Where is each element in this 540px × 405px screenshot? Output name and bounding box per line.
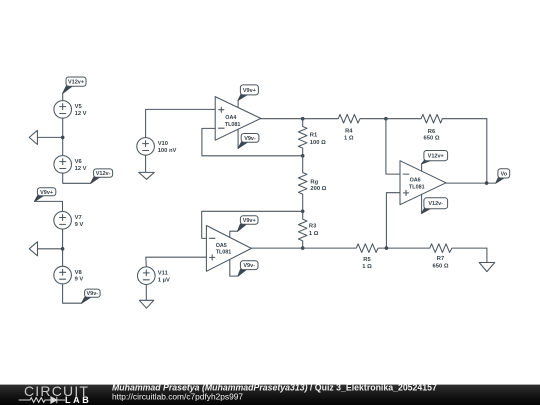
svg-text:12 V: 12 V (75, 111, 87, 117)
flag V9v+ (OA4) (238, 85, 258, 100)
resistor Rg (298, 156, 307, 212)
wire OA6 output to Vo (446, 182, 496, 184)
wire OA4 feedback (output node to inverting input) (202, 128, 303, 155)
wire OA6 non-inverting input (386, 193, 400, 248)
wire R7 to ground (486, 248, 488, 262)
resistor R5 (303, 244, 387, 253)
flag V12v+ (OA6) (422, 151, 448, 164)
footer bar (0, 385, 540, 405)
svg-text:100 Ω: 100 Ω (310, 140, 326, 146)
OA5 V+ pin (230, 231, 238, 237)
svg-text:OA5: OA5 (216, 243, 227, 249)
svg-text:V12v+: V12v+ (428, 154, 444, 160)
wire V10 to OA4 plus input (146, 109, 216, 137)
svg-text:R6: R6 (428, 129, 436, 135)
flag Vo (output) (496, 169, 510, 183)
svg-text:650 Ω: 650 Ω (424, 135, 440, 141)
svg-text:TL081: TL081 (216, 250, 232, 256)
ground below V11 (139, 300, 154, 308)
svg-text:V12v-: V12v- (96, 171, 111, 177)
schematic text labels (75, 104, 449, 283)
svg-text:1 µV: 1 µV (158, 277, 170, 283)
svg-text:V5: V5 (75, 104, 83, 110)
ground right of R7 (479, 263, 495, 272)
OA6 V- pin (421, 194, 423, 213)
wire OA5 feedback (Rg/R3 node to inverting input) (202, 211, 303, 238)
OA5 V- pin (230, 260, 238, 277)
flag V12v+ (top left) (63, 77, 86, 93)
svg-text:TL081: TL081 (409, 185, 425, 191)
resistor R6 (386, 114, 487, 123)
wire OA6 inverting input (386, 119, 400, 174)
wire OA4 output (261, 118, 303, 120)
svg-text:R5: R5 (363, 257, 371, 263)
flag V9v- (below V8) (82, 289, 101, 303)
voltage source V11 (138, 267, 156, 285)
svg-text:V12v-: V12v- (428, 201, 443, 207)
svg-text:1 Ω: 1 Ω (362, 264, 372, 270)
svg-text:V12v+: V12v+ (68, 80, 84, 86)
flag V12v- (OA6) (422, 198, 448, 214)
svg-text:V9v-: V9v- (86, 291, 98, 297)
svg-text:Vo: Vo (500, 171, 507, 177)
svg-text:TL081: TL081 (225, 122, 241, 128)
wire V12v+ flag lead (62, 93, 64, 100)
junction output node (485, 181, 489, 185)
svg-text:LAB: LAB (65, 395, 91, 405)
svg-text:V9v-: V9v- (244, 136, 256, 142)
svg-text:V7: V7 (75, 215, 82, 221)
svg-text:Rg: Rg (310, 180, 318, 186)
svg-text:V9v+: V9v+ (40, 190, 53, 196)
flag V9v+ (left column) (35, 188, 56, 202)
junction V7/V8 (61, 247, 65, 251)
svg-text:9 V: 9 V (75, 222, 84, 228)
wire R6 right to output node (486, 119, 488, 183)
wire V11 to OA5 non-inverting input (146, 257, 207, 267)
junction Rg/R3 node (301, 210, 305, 214)
junction R5/OA6 non-inverting node (385, 246, 389, 250)
voltage source V8 (54, 266, 72, 284)
junction R1/Rg node (301, 154, 305, 158)
svg-text:1 Ω: 1 Ω (344, 135, 354, 141)
wire V9v+ flag to V7 (35, 201, 63, 211)
resistor R4 (303, 114, 386, 123)
wire V10 to ground (145, 155, 147, 172)
svg-text:OA4: OA4 (225, 115, 236, 121)
flag V9v- (OA5) (238, 261, 258, 276)
svg-text:200 Ω: 200 Ω (310, 186, 326, 192)
svg-text:V11: V11 (158, 271, 169, 277)
svg-text:12 V: 12 V (75, 166, 87, 172)
svg-text:9 V: 9 V (75, 277, 84, 283)
ground (left arrow, node between V7/V8) (29, 242, 62, 256)
OA6 V+ pin (421, 164, 423, 171)
resistor R1 (298, 119, 307, 156)
resistor R7 (386, 244, 487, 253)
flag V9v- (OA4) (238, 134, 259, 149)
svg-text:V8: V8 (75, 270, 83, 276)
junction V5/V6 (61, 136, 65, 140)
op-amp OA5 (206, 226, 251, 272)
voltage source V7 (54, 212, 72, 230)
CircuitLab logo schematic line with resistor and diode (19, 397, 65, 403)
ground below V10 (139, 172, 155, 179)
flag V12v- (below V6) (91, 169, 113, 183)
junction OA4 output node (301, 117, 305, 121)
svg-text:V9v+: V9v+ (243, 218, 256, 224)
svg-text:V10: V10 (158, 141, 168, 147)
junction R4/R6/OA6 inverting node (384, 117, 388, 121)
svg-text:OA6: OA6 (410, 177, 421, 183)
op-amp OA4 (215, 97, 261, 141)
OA4 V- pin (237, 129, 239, 148)
svg-text:V6: V6 (75, 159, 83, 165)
wire V7 to V8 (62, 229, 64, 266)
svg-text:100 nV: 100 nV (158, 148, 177, 154)
svg-text:V9v+: V9v+ (243, 88, 256, 94)
svg-text:R3: R3 (309, 224, 317, 230)
op-amp OA6 (400, 161, 446, 205)
wire V8 to V9v- flag (63, 284, 82, 303)
voltage source V10 (137, 138, 155, 156)
svg-text:R7: R7 (437, 256, 444, 262)
OA4 V+ pin (237, 100, 239, 107)
wire V11 to ground (145, 285, 147, 301)
junction OA5 output node (301, 246, 305, 250)
svg-text:V9v-: V9v- (243, 263, 255, 269)
wire V5 to V6 (62, 118, 64, 155)
ground (left arrow, node between V5/V6) (29, 130, 63, 144)
flags (35, 77, 510, 303)
svg-text:650 Ω: 650 Ω (433, 263, 449, 269)
flag V9v+ (OA5) (238, 216, 258, 231)
voltage source V6 (54, 156, 72, 174)
svg-text:R4: R4 (345, 129, 353, 135)
wire OA5 output (251, 247, 302, 249)
resistor R3 (298, 211, 307, 248)
voltage source V5 (54, 101, 72, 119)
svg-text:1 Ω: 1 Ω (309, 231, 319, 237)
wire V6 to V12v- flag (63, 173, 91, 183)
svg-text:R1: R1 (310, 132, 318, 138)
svg-text:http://circuitlab.com/c7pdfyh2: http://circuitlab.com/c7pdfyh2ps997 (112, 391, 243, 401)
